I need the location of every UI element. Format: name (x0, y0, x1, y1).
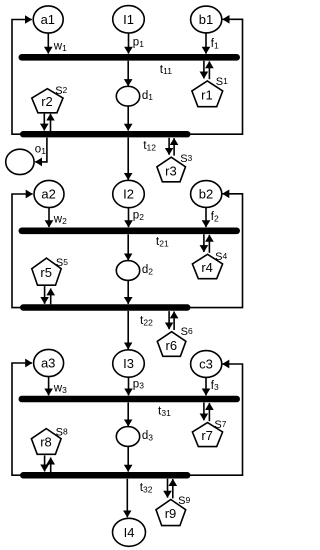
svg-text:d2: d2 (142, 264, 153, 276)
place b1 (191, 6, 222, 33)
arc t32 to r8 (50, 458, 52, 472)
svg-text:o1: o1 (35, 143, 46, 155)
place o1 (6, 149, 34, 174)
arc d1 to t12 (127, 106, 129, 130)
arc t32 to I4 (126, 479, 128, 517)
svg-text:p2: p2 (133, 210, 144, 222)
arc w3 a3 to t31 (48, 377, 50, 396)
svg-text:r1: r1 (201, 88, 213, 103)
svg-text:r7: r7 (201, 428, 213, 443)
svg-text:f3: f3 (211, 380, 219, 392)
place I3 (113, 350, 145, 377)
svg-text:d3: d3 (142, 430, 153, 442)
svg-text:a1: a1 (41, 12, 55, 27)
svg-text:r2: r2 (41, 94, 53, 109)
arc t12 to I2 (127, 138, 129, 180)
svg-text:p3: p3 (133, 378, 144, 390)
arc t11 to d1 (127, 61, 129, 86)
arc p1 I1 to t11 (128, 33, 130, 54)
svg-text:w1: w1 (53, 41, 67, 53)
svg-text:f2: f2 (211, 211, 219, 223)
place c3 (191, 351, 222, 378)
wire feedback t12 to a1 (left) (12, 20, 32, 135)
svg-text:I2: I2 (123, 187, 134, 202)
svg-text:f1: f1 (211, 38, 219, 50)
wire feedback t22 to b2 (right) (190, 194, 243, 308)
svg-text:S5: S5 (56, 257, 68, 269)
resource r5 (32, 258, 61, 285)
wire feedback t22 to a2 (left) (12, 194, 33, 308)
arc t12 to r3 (168, 138, 170, 155)
arc t31 to r7 (203, 403, 205, 421)
resource r8 (31, 429, 61, 455)
place d2 (116, 261, 139, 281)
arc t32 to r9 (167, 479, 169, 498)
arc r2 to t12 (43, 114, 45, 131)
arc f3 c3 to t31 (205, 377, 207, 395)
place I4 (113, 518, 146, 546)
arc w1 a1 to t11 (47, 33, 49, 54)
arc p3 I3 to t31 (128, 377, 130, 395)
place b2 (191, 181, 222, 208)
transition t32 (20, 472, 191, 479)
arc r9 to t32 (172, 479, 174, 498)
arc r8 to t32 (44, 455, 46, 471)
resource r1 (192, 81, 223, 107)
svg-text:r3: r3 (165, 163, 177, 178)
svg-text:w3: w3 (53, 383, 67, 395)
resource r9 (156, 500, 186, 526)
arc f1 b1 to t11 (205, 33, 207, 54)
svg-text:S3: S3 (180, 153, 192, 165)
svg-text:t32: t32 (140, 480, 153, 494)
arc t11 to r1 (203, 61, 205, 79)
svg-text:t11: t11 (160, 62, 172, 76)
transition t12 (20, 131, 191, 137)
resource r7 (192, 423, 222, 447)
arc w2 a2 to t21 (48, 208, 50, 228)
svg-text:t21: t21 (156, 234, 169, 248)
wire feedback t12 to b1 (right) (190, 19, 243, 134)
arc d3 to t32 (127, 447, 129, 472)
svg-text:b1: b1 (199, 12, 213, 27)
arc t31 to d3 (127, 403, 129, 427)
arc t21 to r4 (203, 234, 205, 252)
svg-text:S8: S8 (56, 426, 68, 438)
resource r2 (32, 89, 63, 113)
arc r5 to t22 (44, 286, 46, 304)
svg-text:b2: b2 (199, 187, 213, 202)
svg-text:d1: d1 (142, 90, 153, 102)
arc t12 to o1 (35, 138, 47, 162)
transition t11 (19, 54, 241, 61)
place a3 (34, 349, 64, 376)
transition t22 (20, 304, 191, 310)
wire feedback t32 to a3 (left) (12, 363, 32, 475)
svg-text:S1: S1 (216, 76, 228, 88)
wire feedback t32 to c3 (right) (190, 364, 243, 475)
place a2 (34, 180, 64, 207)
svg-text:w2: w2 (53, 214, 67, 226)
svg-text:r9: r9 (165, 506, 177, 521)
arc d2 to t22 (127, 281, 129, 304)
svg-text:t22: t22 (140, 313, 153, 327)
svg-text:t12: t12 (143, 138, 156, 152)
place d1 (116, 86, 139, 106)
resource r6 (157, 332, 186, 357)
place d3 (116, 427, 139, 447)
transition t31 (19, 396, 241, 403)
svg-text:r4: r4 (201, 260, 213, 275)
svg-text:r8: r8 (40, 434, 52, 449)
svg-text:I4: I4 (124, 525, 135, 540)
arc t12 to r2 (50, 114, 52, 131)
svg-text:S6: S6 (181, 326, 193, 338)
arc f2 b2 to t21 (205, 207, 207, 227)
arc r1 to t11 (208, 61, 210, 79)
transition t21 (19, 228, 241, 235)
arc t22 to r6 (168, 311, 170, 329)
place I1 (113, 6, 145, 33)
arc r6 to t22 (173, 312, 175, 331)
arc t21 to d2 (127, 234, 129, 260)
svg-text:a3: a3 (41, 356, 55, 371)
svg-text:I3: I3 (123, 356, 134, 371)
resource r4 (192, 254, 222, 278)
arc t22 to I3 (127, 311, 129, 349)
arc r3 to t12 (173, 138, 175, 155)
arc r7 to t31 (208, 403, 210, 421)
svg-text:r5: r5 (40, 265, 52, 280)
svg-text:S2: S2 (55, 85, 67, 97)
svg-text:p1: p1 (133, 37, 144, 49)
svg-text:I1: I1 (123, 12, 134, 27)
place a1 (33, 6, 63, 33)
svg-text:a2: a2 (41, 187, 55, 202)
svg-text:c3: c3 (199, 357, 213, 372)
arc p2 I2 to t21 (128, 208, 130, 227)
resource r3 (157, 157, 186, 182)
arc r4 to t21 (208, 235, 210, 253)
arc t22 to r5 (50, 289, 52, 305)
svg-text:t31: t31 (158, 404, 171, 418)
svg-text:r6: r6 (166, 338, 178, 353)
place I2 (113, 180, 145, 207)
